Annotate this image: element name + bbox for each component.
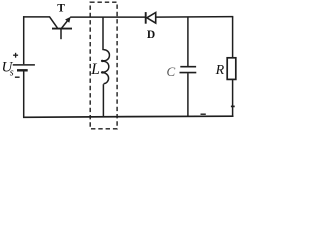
svg-text:R: R [215, 63, 225, 78]
svg-text:s: s [10, 68, 14, 79]
svg-text:T: T [57, 3, 65, 15]
svg-text:L: L [90, 61, 100, 78]
svg-text:D: D [147, 29, 155, 41]
svg-text:C: C [167, 64, 176, 79]
